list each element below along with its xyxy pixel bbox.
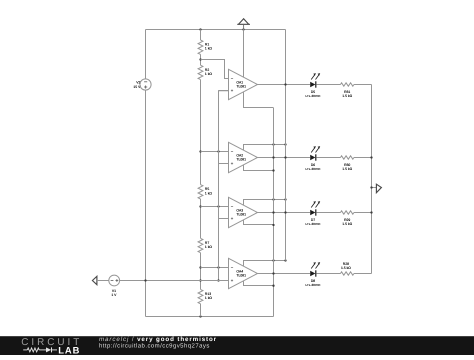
footer url text (99, 343, 210, 350)
op-amp OA2 TL081 (229, 142, 258, 172)
wire R13 bottom segment (200, 304, 202, 317)
wire row 1 LED to resistor (316, 84, 340, 86)
wire OA2 V+ pin (244, 145, 286, 150)
svg-text:LTL-307EE: LTL-307EE (306, 222, 321, 226)
wire ladder tap 1 to OA1 inverting input (201, 60, 229, 79)
resistor R28 1.5 kOhm (340, 262, 354, 275)
svg-text:V2: V2 (136, 81, 140, 85)
svg-text:TL081: TL081 (236, 274, 246, 278)
wire OA3 non-inverting input (219, 218, 229, 220)
wire OA1 V- pin (244, 92, 274, 107)
resistor R2 1 kOhm (198, 65, 212, 79)
svg-text:LAB: LAB (58, 344, 80, 355)
node output stub junction (370, 186, 372, 188)
wire input arrow to V1 (97, 280, 109, 282)
logo CIRCUIT (21, 337, 82, 348)
wire OA2 non-inverting input (219, 163, 229, 165)
port output arrow (376, 184, 381, 193)
svg-text:LTL-307EE: LTL-307EE (306, 283, 321, 287)
wire R1-R2 segment (200, 54, 202, 65)
svg-text:1.5 kΩ: 1.5 kΩ (342, 222, 352, 226)
node V- row2 junction (272, 156, 274, 158)
wire row 2 resistor to bus (354, 157, 372, 159)
node V- OA2 pin junction (272, 169, 274, 171)
node V- OA3 pin junction (272, 224, 274, 226)
power VCC arrow (237, 19, 250, 30)
wire OA4 output (258, 273, 297, 275)
svg-text:1.5 kΩ: 1.5 kΩ (341, 266, 351, 270)
wire OA3 V- pin (244, 220, 274, 224)
resistor R29 1.5 kOhm (340, 211, 354, 226)
wire OA4 V+ pin (244, 261, 286, 266)
wire OA3 output (258, 212, 297, 214)
wire R5-R7 segment (200, 199, 202, 238)
wire ladder tap 2 to OA2 inverting input (201, 151, 229, 153)
wire row 3 LED to resistor (316, 212, 340, 214)
svg-text:1 kΩ: 1 kΩ (205, 296, 213, 300)
svg-text:1.5 kΩ: 1.5 kΩ (342, 94, 352, 98)
svg-text:TL081: TL081 (236, 85, 246, 89)
node bus row2 junction (370, 156, 372, 158)
node bottom rail ladder junction (199, 315, 201, 317)
wire LED output bus (371, 85, 373, 274)
node V+ row2 junction (284, 156, 286, 158)
svg-text:1 kΩ: 1 kΩ (205, 191, 213, 195)
voltage source V2 15 V (133, 79, 151, 90)
node V+ row3 junction (284, 211, 286, 213)
node OA4 V+ junction (284, 259, 286, 261)
svg-text:15 V: 15 V (133, 85, 141, 89)
wire OA2 output (258, 157, 297, 159)
wire V1 to ladder and OA4 (120, 280, 229, 282)
svg-text:1 kΩ: 1 kΩ (205, 245, 213, 249)
wire row 3 resistor to bus (354, 212, 372, 214)
wire V2 top lead (145, 30, 147, 80)
wire row 4 LED anode lead (296, 273, 310, 275)
voltage source V1 1 V (109, 275, 120, 297)
wire output stub (372, 187, 377, 189)
wire row 2 LED anode lead (296, 157, 310, 159)
op-amp OA4 TL081 (229, 258, 258, 288)
node OA3 V+ crossing (272, 198, 274, 200)
wire ladder tap 4 to OA4 inverting input (201, 267, 229, 269)
wire OA3 V+ pin (244, 200, 286, 205)
svg-text:TL081: TL081 (236, 213, 246, 217)
wire R7-R13 segment (200, 253, 202, 290)
node top rail ladder junction (199, 28, 201, 30)
wire OA2 V- pin (244, 165, 274, 170)
wire row 4 LED to resistor (316, 273, 340, 275)
footer title text (99, 336, 217, 343)
node V- row4 junction (272, 272, 274, 274)
resistor R7 1 kOhm (198, 238, 212, 252)
node ladder tap 3 (199, 205, 201, 207)
node ladder tap 4 (199, 266, 201, 268)
wire row 1 resistor to bus (354, 84, 372, 86)
LED D6 LTL-307EE (306, 146, 321, 171)
wire V+ supply vertical (285, 30, 287, 261)
node bus row3 junction (370, 211, 372, 213)
svg-text:http://circuitlab.com/cc9gv5hq: http://circuitlab.com/cc9gv5hq27ays (99, 343, 210, 350)
LED D8 LTL-307EE (306, 262, 321, 287)
resistor R31 1.5 kOhm (340, 83, 354, 98)
node OA4 V+ crossing (272, 259, 274, 261)
svg-text:TL081: TL081 (236, 158, 246, 162)
svg-text:1 kΩ: 1 kΩ (205, 47, 213, 51)
wire row 1 LED anode lead (296, 84, 310, 86)
wire OA4 non-inverting input (219, 280, 229, 282)
wire OA1 V+ pin to top rail (243, 30, 245, 77)
LED D5 LTL-307EE (306, 73, 321, 98)
node plus-bus crossing at OA3 inverting input (217, 205, 219, 207)
node V- row3 junction (272, 211, 274, 213)
LED D7 LTL-307EE (306, 201, 321, 226)
node plus-bus V1 junction (217, 279, 219, 281)
wire bottom negative rail (146, 316, 274, 318)
port input arrow (92, 276, 97, 284)
wire ladder top segment (200, 30, 202, 41)
wire non-inverting input bus (219, 91, 229, 281)
node top rail VCC junction (242, 28, 244, 30)
node V+ row1 junction (284, 83, 286, 85)
node OA2 V+ junction (284, 143, 286, 145)
logo wire art (23, 347, 57, 352)
footer bar (0, 336, 474, 355)
wire row 2 LED to resistor (316, 157, 340, 159)
wire OA1 output (258, 84, 297, 86)
node ladder tap 2 (199, 150, 201, 152)
wire ladder tap 3 to OA3 inverting input (201, 206, 229, 208)
node OA2 V+ crossing (272, 143, 274, 145)
node ladder tap 1 (199, 58, 201, 60)
wire row 3 LED anode lead (296, 212, 310, 214)
svg-text:1 kΩ: 1 kΩ (205, 72, 213, 76)
svg-text:1 V: 1 V (111, 293, 117, 297)
wire OA4 V- pin (244, 281, 274, 285)
op-amp OA1 TL081 (229, 69, 258, 99)
svg-text:1.5 kΩ: 1.5 kΩ (342, 167, 352, 171)
resistor R30 1.5 kOhm (340, 156, 354, 171)
node ladder V1 junction (199, 279, 201, 281)
node V1 V2-lead junction (144, 279, 146, 281)
op-amp OA3 TL081 (229, 197, 258, 227)
wire V2 bottom lead (145, 90, 147, 317)
node OA3 V+ junction (284, 198, 286, 200)
wire OA1 non-inverting input (219, 90, 229, 92)
logo LAB (58, 344, 80, 355)
svg-text:LTL-307EE: LTL-307EE (306, 94, 321, 98)
resistor R13 1 kOhm (198, 289, 212, 303)
wire top positive rail (146, 29, 286, 31)
node plus-bus crossing at OA2 inverting input (217, 150, 219, 152)
resistor R5 1 kOhm (198, 185, 212, 199)
resistor R1 1 kOhm (198, 40, 212, 54)
svg-text:marcelcj / very good thermisto: marcelcj / very good thermistor (99, 336, 217, 343)
node V- OA4 pin junction (272, 285, 274, 287)
wire V- supply vertical (273, 108, 275, 317)
wire row 4 resistor to bus (354, 273, 372, 275)
node plus-bus crossing at OA4 inverting input (217, 266, 219, 268)
svg-text:LTL-307EE: LTL-307EE (306, 167, 321, 171)
wire R2-R5 segment (200, 80, 202, 185)
